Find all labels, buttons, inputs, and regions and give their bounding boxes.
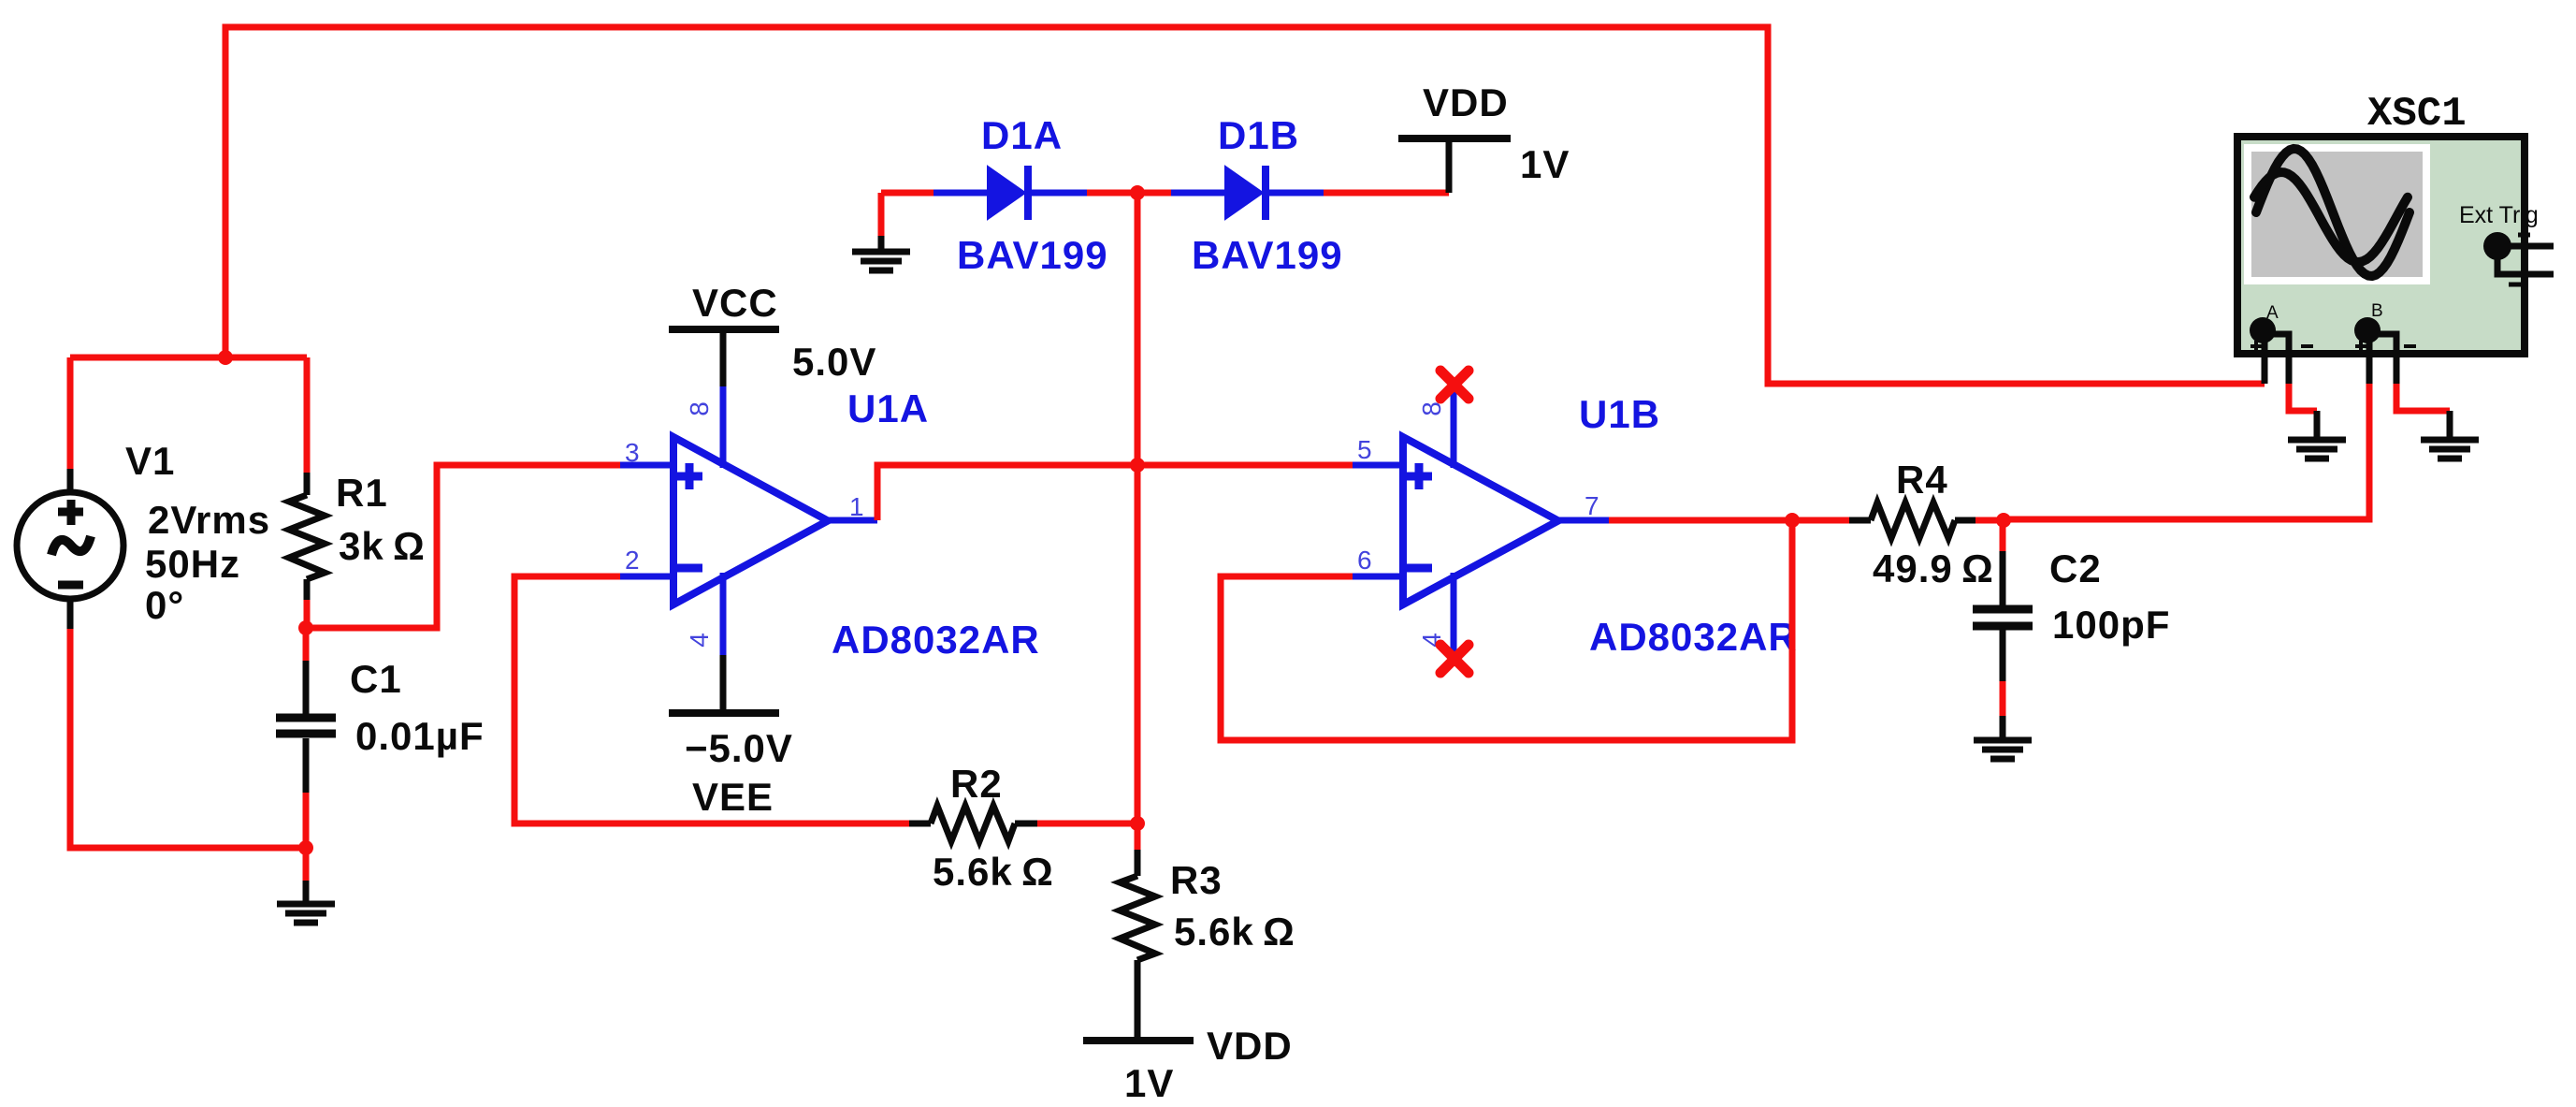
svg-text:Ext Trig: Ext Trig [2459,202,2539,228]
op-amp U1A [620,386,877,655]
svg-text:100pF: 100pF [2052,603,2170,647]
label BAV199 (D1B) [1192,233,1343,277]
svg-text:R3: R3 [1170,858,1223,902]
pin number 4 U1B (rotated) [1417,633,1446,648]
wire C1 node to U1A pin3 [306,465,620,628]
label R1 3k ohm [336,471,426,568]
svg-text:R2: R2 [950,762,1003,806]
capacitor C2 [1973,520,2033,737]
op-amp U1B [1353,390,1609,652]
node junction U1B out / feedback [1785,513,1800,528]
node junction R2/R3/center [1130,816,1145,831]
label C1 0.01uF [350,657,485,758]
wire C2 node to scope channel B [2004,384,2369,519]
svg-text:V1: V1 [125,439,175,483]
wire V1 bottom to C1 bottom / ground [70,629,306,848]
label V1 [125,439,270,627]
ground scope A [2288,440,2346,459]
wire top rail from V1/R1 node to scope channel A [225,27,2265,384]
svg-text:VCC: VCC [692,281,778,325]
svg-text:R4: R4 [1896,458,1948,502]
ground scope B [2421,440,2479,459]
svg-text:1V: 1V [1520,142,1570,186]
power VDD symbol (bottom) [1083,1037,1194,1044]
pin number 5 [1357,435,1372,464]
svg-text:49.9 Ω: 49.9 Ω [1873,546,1994,590]
wire D1A cathode to center node [1087,190,1137,197]
ground below C2 [1974,740,2032,759]
wire center node to U1B pin5 [1137,462,1353,469]
label VDD 1V (bottom) [1124,1024,1293,1105]
svg-text:0.01µF: 0.01µF [355,714,485,758]
node junction center / U1A out / U1B in [1130,458,1145,473]
label AD8032AR (U1A) [832,618,1040,662]
node junction C1 bottom / ground [298,840,313,881]
label B [2371,301,2383,321]
svg-text:4: 4 [685,633,714,648]
wire U1B feedback loop to pin6 [1221,520,1792,740]
pin number 1 [849,492,864,521]
svg-text:VEE: VEE [692,775,774,819]
wire scope A- to ground [2289,384,2317,437]
svg-text:AD8032AR: AD8032AR [832,618,1040,662]
svg-text:D1A: D1A [981,113,1063,157]
svg-text:A: A [2266,303,2279,323]
svg-text:BAV199: BAV199 [1192,233,1343,277]
wire R2 to center node [1037,821,1137,827]
label XSC1 [2367,91,2467,138]
label R4 49.9 ohm [1873,458,1994,590]
svg-text:1: 1 [849,492,864,521]
diode D1B BAV199 [1171,166,1324,220]
svg-text:XSC1: XSC1 [2367,91,2467,138]
svg-text:D1B: D1B [1218,113,1299,157]
wire scope B- to ground [2396,384,2450,437]
svg-text:R1: R1 [336,471,388,515]
power VDD symbol (top) [1398,138,1511,193]
wire U1A output to center node [877,465,1137,520]
ground below C1 [277,881,335,923]
svg-text:5.0V: 5.0V [792,340,876,384]
svg-text:BAV199: BAV199 [957,233,1108,277]
svg-text:3: 3 [625,438,640,467]
svg-text:50Hz: 50Hz [145,542,240,586]
svg-text:5.6k Ω: 5.6k Ω [933,850,1054,894]
wire center node to D1B anode [1137,190,1171,197]
label D1A [981,113,1063,157]
svg-text:U1B: U1B [1579,392,1660,436]
svg-text:VDD: VDD [1423,80,1509,124]
svg-text:2Vrms: 2Vrms [148,498,270,542]
pin number 3 [625,438,640,467]
wire V1 top to R1 top [70,357,307,473]
oscilloscope XSC1 [2237,137,2554,384]
label AD8032AR (U1B) [1589,615,1798,659]
label C2 100pF [2049,546,2170,647]
label D1B [1218,113,1299,157]
wire center column [1135,193,1141,823]
svg-text:VDD: VDD [1207,1024,1293,1068]
pin number 8 (rotated) [685,401,714,416]
pin number 6 [1357,546,1372,575]
no-connect X on pin 8 [1440,371,1469,399]
label R2 5.6k ohm [933,762,1054,894]
svg-text:5.6k Ω: 5.6k Ω [1174,910,1295,954]
capacitor C1 [276,628,336,848]
diode D1A BAV199 [933,166,1087,220]
label BAV199 (D1A) [957,233,1108,277]
svg-text:8: 8 [1417,401,1446,416]
svg-text:C1: C1 [350,657,402,701]
svg-text:−5.0V: −5.0V [685,726,793,770]
node junction R1/C1/U1A+ [298,620,313,635]
no-connect X on pin 4 [1440,645,1469,673]
resistor R4 49.9 ohm [1792,503,2004,538]
svg-text:6: 6 [1357,546,1372,575]
resistor R2 5.6k [909,806,1037,841]
pin number 8 U1B (rotated) [1417,401,1446,416]
label U1B [1579,392,1660,436]
label U1A [847,386,929,430]
svg-text:3k Ω: 3k Ω [339,524,426,568]
svg-text:1V: 1V [1124,1061,1174,1105]
svg-text:AD8032AR: AD8032AR [1589,615,1798,659]
wire D1B cathode to VDD [1324,190,1449,197]
label VDD 1V (top) [1423,80,1570,186]
resistor R1 [289,473,325,600]
svg-text:B: B [2371,301,2383,321]
label VCC 5.0V [692,281,876,384]
label R3 5.6k ohm [1170,858,1295,954]
svg-text:5: 5 [1357,435,1372,464]
node junction V1/R1/top-rail [218,350,233,365]
wire U1B output to R4 [1609,517,1792,524]
power VEE symbol [669,655,779,713]
pin number 2 [625,546,640,575]
node junction R4 / C2 / scope B [1996,513,2011,528]
pin number 7 [1585,491,1599,520]
svg-text:U1A: U1A [847,386,929,430]
resistor R3 5.6k [1120,823,1155,1041]
wire ground to D1A anode [881,190,933,197]
label -5.0V VEE [685,726,793,819]
svg-text:2: 2 [625,546,640,575]
wire U1A feedback pin2 to R2 [514,576,909,823]
svg-text:7: 7 [1585,491,1599,520]
svg-text:0°: 0° [145,583,184,627]
ground left of diode D1A [852,193,910,270]
wire R1 bottom to C1 top node [304,600,311,628]
label Ext Trig [2459,202,2539,228]
power VCC symbol [669,329,779,386]
source V1 [17,469,123,629]
svg-text:8: 8 [685,401,714,416]
svg-text:C2: C2 [2049,546,2102,590]
pin number 4 (rotated) [685,633,714,648]
label A [2266,303,2279,323]
node junction diodes / center column [1130,185,1145,200]
